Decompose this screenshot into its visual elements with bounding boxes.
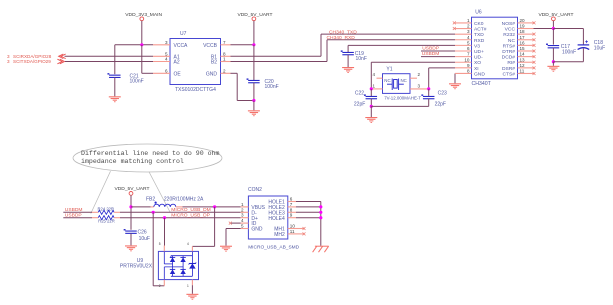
wire XI to crystal — [429, 67, 455, 69]
svg-text:17: 17 — [520, 35, 526, 40]
svg-text:VDD_3V3_MAIN: VDD_3V3_MAIN — [125, 12, 162, 18]
wire DP down to U9 pin5 — [164, 218, 166, 246]
chassis ground — [313, 246, 329, 252]
svg-text:10: 10 — [290, 224, 296, 229]
svg-text:SCITXDA/GPIO29: SCITXDA/GPIO29 — [13, 59, 51, 64]
ground C26 — [125, 245, 137, 251]
svg-text:10: 10 — [464, 57, 470, 62]
ground CON2 — [220, 246, 232, 252]
wires HOLE1-4 to chassis — [296, 201, 321, 203]
svg-text:7V-12.000MAHE-T: 7V-12.000MAHE-T — [384, 96, 421, 101]
svg-text:5: 5 — [159, 242, 161, 246]
svg-text:4: 4 — [241, 218, 244, 223]
wire USBDP to R25 — [63, 217, 92, 219]
wire XO to crystal — [371, 61, 455, 63]
svg-text:10nF: 10nF — [356, 56, 367, 62]
capacitor C21 — [109, 75, 121, 77]
svg-text:CH340_RXD: CH340_RXD — [327, 35, 356, 41]
wire USBDP to UD+ — [421, 50, 455, 52]
svg-text:220R/100MHz 2A: 220R/100MHz 2A — [164, 196, 204, 202]
no-connect ID pin — [231, 222, 241, 224]
wire C21 branch — [114, 45, 116, 74]
junctions HOLE2-4 — [319, 205, 322, 208]
ground C21 — [109, 96, 121, 102]
junction VCC — [552, 27, 555, 30]
svg-text:USBDP: USBDP — [422, 46, 439, 52]
svg-text:100nF: 100nF — [562, 50, 576, 56]
svg-text:NC: NC — [384, 78, 390, 83]
svg-text:3: 3 — [7, 59, 10, 64]
svg-text:NC: NC — [401, 78, 407, 83]
svg-text:USBDM: USBDM — [422, 51, 440, 57]
wire MICRO_USB_DM — [120, 211, 241, 213]
svg-text:RI#: RI# — [507, 60, 515, 66]
wire A2 net — [65, 61, 153, 63]
svg-text:3: 3 — [165, 40, 168, 45]
svg-text:3: 3 — [467, 29, 470, 34]
svg-text:OE: OE — [174, 72, 182, 78]
svg-text:18: 18 — [520, 29, 526, 34]
svg-text:DSR#: DSR# — [502, 66, 515, 72]
svg-text:R25 22R: R25 22R — [98, 218, 115, 223]
capacitor C18 polarized — [578, 45, 590, 50]
svg-text:VCCA: VCCA — [174, 43, 189, 49]
junction crystal pin3 — [427, 87, 430, 90]
junction GND net — [252, 99, 255, 102]
svg-text:PRTR5V0U2X: PRTR5V0U2X — [120, 264, 153, 270]
svg-text:2: 2 — [159, 284, 161, 288]
wire to C18 — [553, 28, 583, 30]
svg-text:16: 16 — [520, 40, 526, 45]
junction cap rail — [370, 105, 373, 108]
svg-text:11: 11 — [290, 229, 295, 234]
svg-text:XO: XO — [474, 60, 481, 66]
svg-text:10uF: 10uF — [139, 236, 150, 242]
wire USBDM to R24 — [63, 211, 92, 213]
callout leader lines — [91, 171, 111, 213]
svg-text:VCCB: VCCB — [203, 43, 218, 49]
svg-text:1: 1 — [187, 284, 189, 288]
wire CON2 GND to ground — [226, 228, 241, 230]
svg-text:HOLE4: HOLE4 — [268, 216, 285, 222]
U9 pin stubs — [163, 246, 165, 252]
svg-text:MH2: MH2 — [274, 232, 285, 238]
svg-text:XI: XI — [474, 66, 479, 72]
svg-text:9: 9 — [467, 63, 470, 68]
svg-text:CH340T: CH340T — [472, 81, 492, 87]
svg-text:20: 20 — [520, 18, 526, 23]
wire to ground — [552, 62, 554, 66]
svg-text:GND: GND — [474, 71, 485, 77]
svg-text:UD+: UD+ — [474, 49, 484, 55]
svg-text:10uF: 10uF — [594, 45, 605, 51]
capacitor C17 — [548, 46, 560, 48]
callout note ellipse — [73, 144, 222, 172]
svg-text:MICRO_USB_AB_SMD: MICRO_USB_AB_SMD — [248, 245, 299, 251]
wire VDD_3V3_MAIN down — [141, 21, 143, 45]
svg-text:Y1: Y1 — [386, 67, 392, 73]
svg-text:C26: C26 — [138, 230, 147, 236]
svg-text:8: 8 — [290, 207, 293, 212]
no-connect X right side — [533, 21, 536, 24]
ground C19 — [342, 67, 354, 73]
svg-text:3: 3 — [241, 213, 244, 218]
svg-text:MICRO_USB_DP: MICRO_USB_DP — [171, 213, 210, 219]
svg-text:15: 15 — [520, 46, 526, 51]
wire VCCB — [231, 44, 254, 46]
ferrite bead FB2 — [131, 206, 151, 208]
svg-text:1: 1 — [467, 18, 470, 23]
ground C17 — [547, 66, 559, 72]
svg-text:V3: V3 — [474, 43, 480, 49]
svg-text:8: 8 — [467, 69, 470, 74]
capacitor C22 — [370, 89, 372, 97]
junction VBUS/U9 — [213, 205, 216, 208]
svg-text:5: 5 — [467, 40, 470, 45]
svg-text:13: 13 — [520, 57, 526, 62]
svg-text:4: 4 — [187, 242, 189, 246]
svg-text:RTS#: RTS# — [503, 43, 516, 49]
svg-text:9: 9 — [290, 213, 293, 218]
svg-text:MICRO_USB_DM: MICRO_USB_DM — [171, 207, 210, 213]
svg-text:DTR#: DTR# — [502, 49, 515, 55]
svg-text:CON2: CON2 — [248, 187, 262, 193]
svg-text:Differential line need to do 9: Differential line need to do 90 ohm — [81, 150, 220, 157]
svg-text:GND: GND — [251, 227, 263, 233]
svg-text:A2: A2 — [174, 60, 180, 66]
svg-text:impedance matching control: impedance matching control — [81, 158, 184, 165]
wire C21 to ground — [114, 77, 116, 96]
junction DM to U9 rail — [152, 211, 155, 214]
wire VDD_5V down — [253, 21, 255, 45]
wire to ground — [253, 101, 255, 111]
junction DP to U9 pin5 — [163, 216, 166, 219]
svg-text:TXS0102DCTTG4: TXS0102DCTTG4 — [175, 87, 216, 93]
U9 internal rails — [164, 251, 192, 279]
svg-text:R24 22R: R24 22R — [98, 206, 115, 211]
junction VCCB/VDD_5V — [252, 43, 255, 46]
svg-text:U7: U7 — [180, 31, 187, 37]
wire B2 to CH340 RXD — [231, 61, 328, 63]
capacitor C23 — [428, 89, 430, 97]
wire MICRO_USB_DP — [120, 217, 241, 219]
no-connect X pins CK0 ACT# — [453, 21, 456, 24]
svg-text:7: 7 — [290, 202, 293, 207]
wire USBDM to UD- — [421, 56, 455, 58]
wire U6 GND to ground — [454, 73, 456, 83]
svg-text:2: 2 — [223, 68, 226, 73]
svg-text:U6: U6 — [475, 9, 482, 15]
svg-text:NC: NC — [508, 38, 516, 44]
wire to OE — [141, 45, 143, 74]
U9 zener — [189, 263, 196, 268]
capacitor C20 — [248, 80, 260, 82]
svg-text:7: 7 — [467, 52, 470, 57]
svg-text:B2: B2 — [211, 60, 217, 66]
svg-text:22pF: 22pF — [354, 102, 365, 108]
wire to crystal ground — [370, 106, 372, 117]
wire U7 GND — [231, 72, 238, 74]
wire VDD down to C26 — [130, 195, 132, 230]
svg-text:CTS#: CTS# — [502, 71, 515, 77]
svg-text:NOS#: NOS# — [502, 21, 516, 27]
svg-text:GND: GND — [206, 72, 218, 78]
ground crystal — [365, 117, 377, 123]
svg-text:100nF: 100nF — [265, 84, 279, 90]
junction VBUS feed — [129, 205, 132, 208]
wire B1 to CH340 TXD — [231, 55, 322, 57]
svg-text:C22: C22 — [355, 91, 364, 97]
capacitor C26 — [125, 231, 137, 233]
ground U9 — [186, 294, 198, 300]
no-connect MH1 MH2 — [296, 228, 304, 230]
svg-text:CK0: CK0 — [474, 21, 484, 27]
resistor R24 — [92, 211, 98, 213]
capacitor C19 on V3 — [348, 44, 455, 46]
wire VCCA feed — [115, 44, 153, 46]
wire C20 to junction — [253, 83, 255, 101]
svg-text:TXD: TXD — [474, 32, 484, 38]
wire VDD_5V to C20 — [253, 45, 255, 81]
svg-text:4: 4 — [165, 57, 168, 62]
svg-text:2: 2 — [241, 207, 244, 212]
resistor R25 — [92, 217, 98, 219]
svg-text:C23: C23 — [438, 91, 447, 97]
ground U7 — [248, 110, 260, 116]
svg-text:7: 7 — [223, 40, 226, 45]
junction VDD_3V3/VCCA — [140, 43, 143, 46]
wire A1 net — [65, 55, 154, 57]
svg-text:12: 12 — [520, 63, 526, 68]
wire U9 pin1 to ground — [191, 285, 193, 294]
wire VCC net — [552, 21, 554, 29]
svg-text:RXD: RXD — [474, 38, 485, 44]
svg-text:CH340_TXD: CH340_TXD — [329, 30, 357, 36]
wire FB2 to VBUS — [183, 206, 241, 208]
svg-text:ACT#: ACT# — [474, 27, 487, 33]
svg-text:5: 5 — [241, 224, 244, 229]
svg-text:DCD#: DCD# — [502, 55, 516, 61]
svg-text:R232: R232 — [503, 32, 515, 38]
svg-text:14: 14 — [520, 52, 526, 57]
svg-text:VCC: VCC — [505, 27, 516, 33]
wire VBUS down to U9 pin4 — [214, 207, 216, 247]
U9 diodes — [170, 257, 175, 262]
ground U6 — [449, 83, 461, 89]
svg-text:19: 19 — [520, 24, 526, 29]
svg-text:FB2: FB2 — [146, 196, 155, 202]
svg-text:4: 4 — [467, 35, 470, 40]
svg-text:1: 1 — [241, 202, 244, 207]
svg-text:1: 1 — [223, 57, 226, 62]
junction C17 gnd — [552, 60, 555, 63]
svg-text:6: 6 — [290, 197, 293, 202]
wire cap ground rail — [371, 105, 428, 107]
svg-text:11: 11 — [520, 69, 525, 74]
svg-text:UD-: UD- — [474, 55, 483, 61]
svg-text:22pF: 22pF — [435, 102, 446, 108]
junction crystal pin1 — [370, 87, 373, 90]
svg-text:2: 2 — [467, 24, 470, 29]
svg-text:100nF: 100nF — [130, 79, 144, 85]
wire DM down-around to U9 pin2 — [152, 212, 154, 285]
svg-text:VDD_5V_UART: VDD_5V_UART — [539, 12, 574, 18]
svg-text:6: 6 — [165, 68, 168, 73]
svg-text:6: 6 — [467, 46, 470, 51]
